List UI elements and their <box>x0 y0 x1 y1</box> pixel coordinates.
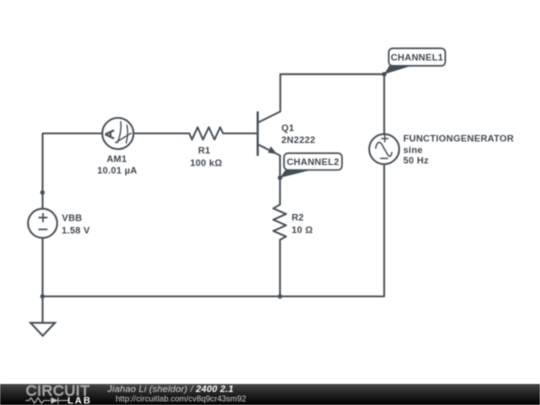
ground <box>31 323 56 336</box>
probe CHANNEL1 callout <box>384 66 412 74</box>
svg-text:AM1: AM1 <box>107 154 127 164</box>
voltage source VBB <box>28 209 57 238</box>
svg-text:R1: R1 <box>198 145 210 155</box>
svg-text:1.58 V: 1.58 V <box>62 225 91 235</box>
node top probe <box>382 72 387 77</box>
node R2 bottom junction <box>278 294 283 299</box>
node emitter probe <box>278 176 283 181</box>
resistor R1 <box>188 127 223 139</box>
wire collector to top node <box>280 74 384 111</box>
svg-text:Q1: Q1 <box>281 123 294 133</box>
transistor Q1 <box>258 111 281 155</box>
footer bar <box>0 384 540 405</box>
ammeter AM1 <box>102 118 133 149</box>
function generator <box>369 134 399 164</box>
wire R2 to bottom rail <box>279 240 281 297</box>
wire bottom rail <box>43 295 385 297</box>
wire top node to function generator <box>383 74 385 134</box>
svg-text:FUNCTIONGENERATOR: FUNCTIONGENERATOR <box>403 133 514 143</box>
logo resistor squiggle and diode <box>26 397 68 403</box>
probe CHANNEL2 callout <box>280 170 311 178</box>
wire VBB to bottom rail <box>42 238 44 297</box>
svg-text:Jiahao Li (sheldor) / 2400 2.1: Jiahao Li (sheldor) / 2400 2.1 <box>106 383 233 394</box>
wire function generator to bottom rail <box>383 164 385 296</box>
svg-text:CHANNEL2: CHANNEL2 <box>287 157 340 167</box>
node ground junction <box>40 294 45 299</box>
svg-text:2N2222: 2N2222 <box>281 135 315 145</box>
svg-text:http://circuitlab.com/cv8q9cr4: http://circuitlab.com/cv8q9cr43sm92 <box>116 395 247 404</box>
svg-text:100 kΩ: 100 kΩ <box>190 158 223 168</box>
resistor R2 <box>273 205 286 240</box>
wire R1 to Q1 base <box>223 132 258 134</box>
wire left rail top <box>43 133 103 209</box>
svg-text:10 Ω: 10 Ω <box>292 225 314 235</box>
wire emitter to R2 <box>279 156 281 205</box>
svg-text:R2: R2 <box>292 212 304 222</box>
svg-text:50 Hz: 50 Hz <box>403 156 429 166</box>
node VBB top <box>40 190 45 195</box>
svg-text:VBB: VBB <box>62 213 82 223</box>
svg-text:CHANNEL1: CHANNEL1 <box>391 52 444 62</box>
svg-text:10.01 µA: 10.01 µA <box>97 165 137 175</box>
wire ammeter to R1 <box>134 132 188 134</box>
svg-text:sine: sine <box>403 145 423 155</box>
wire to ground <box>42 296 44 322</box>
svg-text:LAB: LAB <box>68 396 92 405</box>
